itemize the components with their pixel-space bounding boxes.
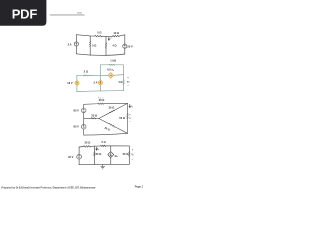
wire: left branch	[75, 35, 77, 54]
voltage source 40V	[77, 154, 82, 159]
wire: left branch	[76, 76, 78, 92]
svg-text:PDF: PDF	[12, 7, 38, 22]
current arrow io (bold)	[129, 105, 130, 108]
ground	[101, 165, 105, 169]
resistor 4ohm mid branch 2	[105, 36, 107, 43]
svg-text:30 Ω: 30 Ω	[109, 105, 115, 109]
svg-text:2 A: 2 A	[68, 43, 72, 47]
svg-text:20 Ω: 20 Ω	[99, 98, 105, 102]
current arrow i (bold)	[108, 37, 110, 40]
svg-text:10 Ω: 10 Ω	[113, 31, 119, 35]
svg-text:4 Ω: 4 Ω	[118, 80, 122, 84]
wire: circuit3 top rail with 20ohm	[84, 103, 128, 104]
wire: raised branch 1kohm	[100, 65, 123, 76]
voltage source 20V	[124, 35, 126, 54]
wire: middle branch	[99, 76, 101, 91]
voltage source 80V bottom	[81, 124, 86, 129]
wire: circuit2 top rail with 2ohm resistor and diamond gap	[77, 75, 108, 76]
svg-text:vo: vo	[131, 154, 133, 156]
footer text	[2, 185, 144, 190]
dependent source diamond 4io	[110, 146, 112, 164]
wire: circuit4 top rail with 20ohm and 5ohm	[79, 145, 129, 147]
svg-text:50 Ω: 50 Ω	[119, 116, 125, 120]
resistor 30ohm upper diagonal	[99, 103, 128, 118]
svg-text:25 Ω: 25 Ω	[91, 114, 97, 118]
voltage source 80V top	[81, 108, 86, 113]
header underline	[50, 12, 85, 16]
resistor 20ohm lower diagonal	[99, 119, 128, 134]
wire: circuit1 top rail with R1 R2	[76, 35, 125, 37]
current source I 2A	[74, 42, 78, 46]
wire: circuit4 bottom rail	[79, 163, 129, 165]
svg-text:5 Ω: 5 Ω	[97, 30, 101, 34]
wire: circuit2 bottom rail	[77, 90, 124, 93]
svg-text:80 V: 80 V	[74, 125, 80, 129]
svg-text:20 V: 20 V	[127, 44, 133, 48]
resistor 25ohm middle horizontal	[84, 117, 91, 119]
wire: circuit1 bottom rail	[76, 54, 125, 56]
svg-text:2 Ω: 2 Ω	[84, 69, 88, 73]
svg-text:io: io	[98, 149, 100, 151]
svg-text:5 Ω: 5 Ω	[92, 43, 96, 47]
resistor 5ohm mid branch 1	[89, 36, 91, 41]
middle branch resistor 20ohm	[93, 146, 95, 152]
PDF badge	[0, 0, 46, 26]
wire: left branch	[78, 147, 80, 165]
svg-text:5 Ω: 5 Ω	[102, 140, 106, 144]
svg-text:80 V: 80 V	[74, 108, 80, 112]
svg-text:1 kΩ: 1 kΩ	[110, 59, 116, 63]
svg-text:20 Ω: 20 Ω	[85, 141, 91, 145]
dependent source diamond 0.5vx	[108, 73, 114, 79]
voltage source 16V	[75, 81, 103, 86]
svg-text:50 Ω: 50 Ω	[123, 152, 129, 156]
wire: left branch	[83, 104, 85, 135]
resistor 4ohm right branch	[123, 75, 125, 80]
svg-text:40 V: 40 V	[68, 155, 74, 159]
resistor 50ohm right branch	[127, 103, 129, 113]
svg-text:16 V: 16 V	[67, 81, 73, 85]
current arrow io (bold)	[96, 147, 97, 150]
svg-text:Page 1: Page 1	[135, 185, 144, 189]
svg-text:20 Ω: 20 Ω	[96, 152, 102, 156]
svg-text:0.5 vx: 0.5 vx	[107, 68, 114, 72]
svg-text:Prepared by Dr.B.Biswal,Assist: Prepared by Dr.B.Biswal,Assistant Profes…	[2, 186, 96, 190]
wire: circuit3 bottom rail	[84, 133, 128, 135]
svg-text:2 A: 2 A	[94, 81, 98, 85]
current source 2A	[98, 81, 102, 85]
svg-text:4 Ω: 4 Ω	[112, 43, 116, 47]
svg-text:io: io	[131, 106, 133, 108]
resistor 50ohm right branch	[128, 146, 130, 152]
